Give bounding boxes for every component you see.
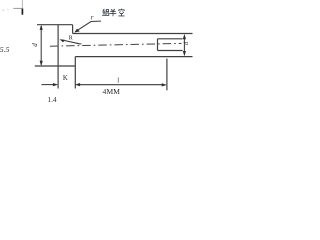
svg-text:5.5: 5.5 [0, 45, 10, 54]
K + l shared dimension line [79, 84, 164, 86]
rivet head bottom edge with extension line [35, 65, 76, 67]
stray dot [7, 9, 8, 10]
bore end step [157, 39, 159, 51]
bore bottom line [158, 50, 183, 52]
stray corner mark top-left: faint vertical [21, 0, 23, 8]
svg-text:4MM: 4MM [103, 87, 121, 96]
annotation 铝半空 drawn as strokes [102, 9, 124, 17]
leader line r [75, 21, 101, 32]
char 铝 (metal radical + two boxes) [102, 9, 106, 15]
stray corner mark top-left: faint horizontal [13, 7, 22, 9]
arrowhead leader r (points down-left) [74, 29, 79, 33]
leader line R [62, 40, 82, 44]
arrowhead d up [183, 34, 186, 39]
svg-text:r: r [91, 14, 94, 22]
rivet head left face + K extension line [57, 25, 59, 89]
rivet head right face lower + K extension line [74, 57, 76, 89]
stray corner mark top-left: dark tick [21, 9, 23, 15]
d dimension line vertical [183, 36, 185, 55]
arrowhead K right (points left) [75, 83, 80, 86]
K dimension line left tail [41, 84, 54, 86]
char 半 [110, 9, 117, 16]
shank top line [73, 33, 193, 35]
rivet head top edge with extension line [37, 24, 73, 26]
rivet head right face upper [72, 25, 74, 34]
svg-text:l: l [117, 77, 119, 84]
centerline dash-dot [50, 43, 182, 46]
svg-text:1.4: 1.4 [47, 95, 57, 104]
bore top line [158, 38, 183, 40]
arrowhead K left (points right) [53, 83, 58, 86]
l dimension extension line right [166, 59, 168, 91]
d1 dimension line vertical [40, 26, 42, 65]
arrowhead d1 up [40, 25, 43, 30]
char 空 [119, 9, 125, 16]
arrowhead d down [183, 51, 186, 56]
arrowhead leader R (points up-left) [60, 39, 65, 42]
arrowhead d1 down [40, 61, 43, 66]
stray dot [3, 10, 4, 11]
svg-text:K: K [63, 75, 68, 82]
svg-text:d: d [31, 43, 39, 47]
arrowhead l right (points right) [162, 83, 167, 86]
shank bottom line [75, 56, 192, 58]
